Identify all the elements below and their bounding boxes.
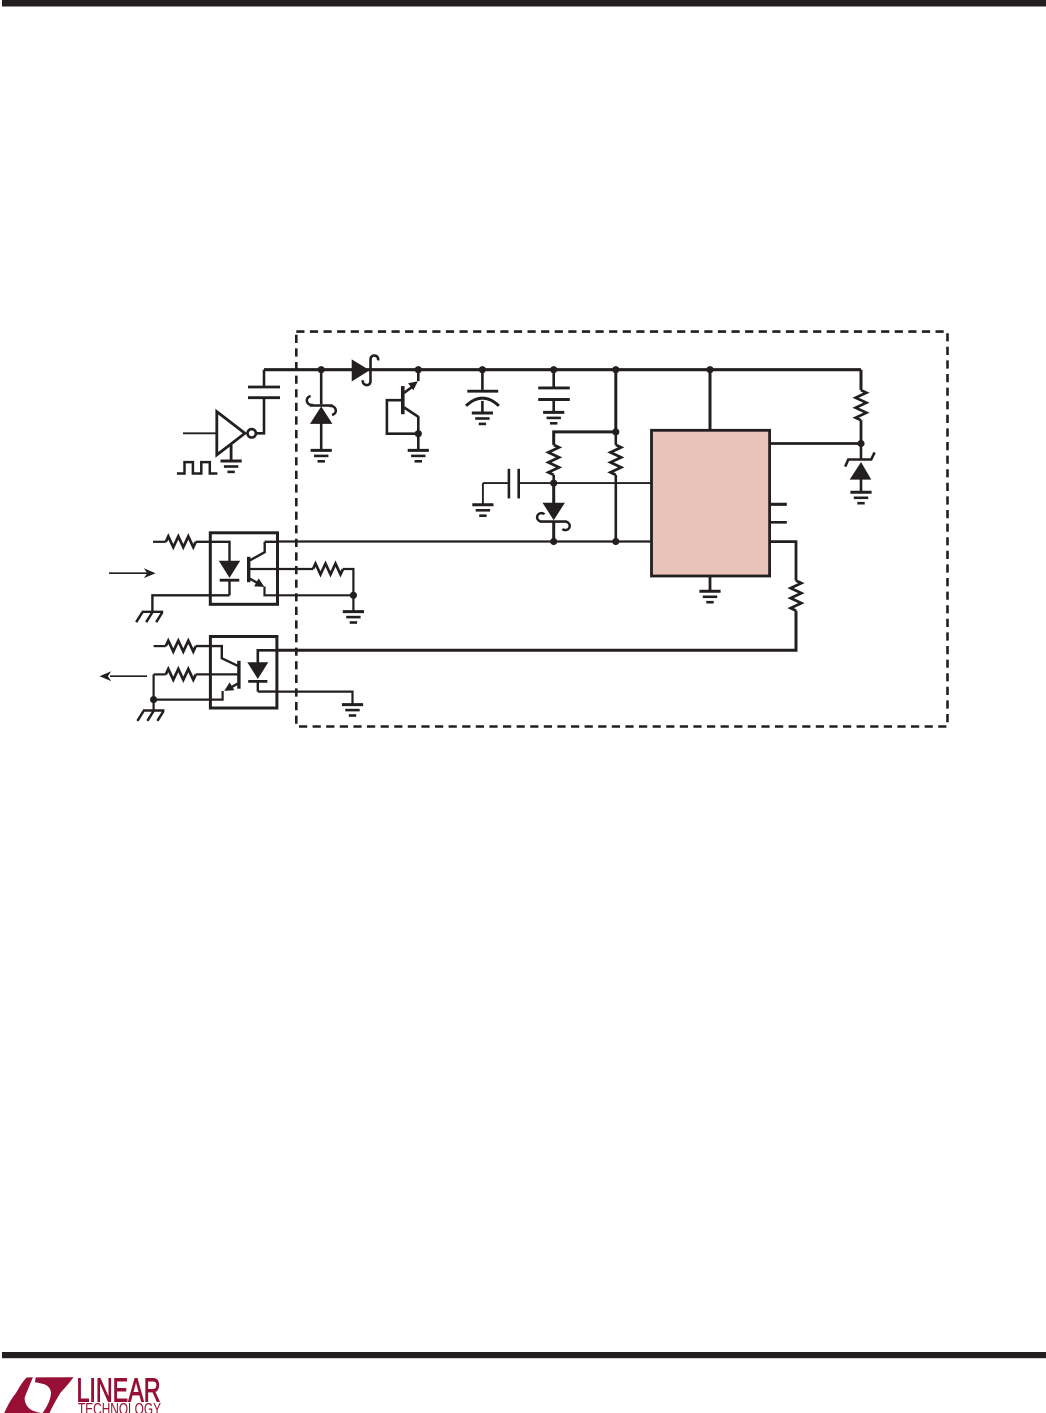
square wave input symbol bbox=[177, 462, 218, 473]
IC U2 (pink block) bbox=[652, 430, 770, 576]
wire: divider top cross wire bbox=[554, 432, 616, 445]
wire: R1 to LED anode bbox=[196, 542, 230, 562]
wire: R7 to U4 collector bbox=[196, 646, 238, 666]
ground at U4 LED cathode bbox=[342, 705, 363, 716]
phototransistor in U4 bbox=[154, 661, 239, 700]
ground under inverter bbox=[230, 444, 233, 461]
svg-text:TECHNOLOGY: TECHNOLOGY bbox=[78, 1400, 161, 1413]
resistor R2 (U3 base-emitter) bbox=[313, 564, 343, 575]
phototransistor in U3 bbox=[249, 542, 354, 596]
wire: U3 LED cathode out to chassis ground bbox=[152, 595, 229, 611]
wire: U4 LED cathode to ground bbox=[277, 692, 353, 704]
node: R4 on bottom net bbox=[612, 538, 619, 545]
node: R3/C4/D3 junction bbox=[550, 480, 557, 487]
node: divider top junction bbox=[612, 428, 619, 435]
capacitor C3 bbox=[538, 370, 570, 412]
node: bus junction at C3 bbox=[550, 366, 557, 373]
ground under C3 bbox=[543, 412, 564, 423]
resistor R5 (top right) bbox=[860, 370, 863, 391]
header bar bbox=[2, 0, 1046, 7]
wire: feedback node to IC left pin bbox=[554, 482, 652, 484]
wire: inverter output up to coupling capacitor bbox=[256, 398, 264, 433]
node: U4 emitter/ground junction bbox=[150, 696, 157, 703]
resistor R4 bbox=[614, 432, 617, 445]
wire: R8 to U4 base bbox=[196, 673, 239, 675]
schottky diode D2 (series on bus) bbox=[352, 355, 378, 385]
resistor R8 (U4 base) bbox=[154, 673, 166, 675]
ground at U3 emitter bbox=[352, 595, 354, 610]
wire: opto U3 collector to IC left pin (bottom net) bbox=[277, 540, 652, 542]
wire: R8 left lead down to ground bbox=[153, 674, 155, 710]
node: R5/D4/IC pin junction bbox=[857, 440, 864, 447]
node: D3 anode on bottom net bbox=[550, 538, 557, 545]
chassis ground (U3 input side) bbox=[136, 612, 163, 622]
wire: R6 down and left to opto U4 bbox=[278, 611, 797, 651]
zener D3 bbox=[537, 483, 570, 541]
ground under Q1 bbox=[417, 434, 420, 450]
arrow: input signal into U3 bbox=[109, 572, 148, 574]
zener D4 bbox=[845, 444, 874, 492]
ground under C4 bbox=[472, 505, 493, 516]
node: bus junction at divider branch bbox=[612, 366, 619, 373]
LED in U3 bbox=[220, 561, 240, 595]
wire: main top bus bbox=[264, 368, 861, 371]
chassis ground (U4 output side) bbox=[137, 711, 164, 721]
wire: IC bottom pin bbox=[709, 576, 712, 591]
node: bus junction at IC top pin bbox=[706, 366, 713, 373]
resistor R3 bbox=[548, 445, 559, 475]
dashed isolation boundary box bbox=[296, 332, 947, 727]
inverter U1 bbox=[217, 412, 256, 455]
wire: IC right pin 1 bbox=[770, 442, 861, 445]
transistor Q1 (diode-connected PNP) bbox=[387, 370, 418, 434]
capacitor C5 (stub plates on IC right) bbox=[770, 503, 787, 506]
wire: bus branch down to divider bbox=[614, 370, 617, 432]
wire: U3 base pin out bbox=[249, 568, 313, 570]
wire: R4 bottom lead bbox=[614, 475, 617, 542]
node: bus junction at C2 bbox=[479, 366, 486, 373]
resistor R1 (U3 LED input) bbox=[153, 541, 166, 543]
node: bus junction at Q1 bbox=[415, 366, 422, 373]
ground under D1 bbox=[311, 450, 332, 461]
arrow: output signal from U4 bbox=[110, 675, 147, 677]
ground under C2 bbox=[472, 413, 493, 424]
capacitor C4 (vertical plates) bbox=[483, 469, 554, 504]
wire: IC right pin 3 to R6 bbox=[770, 542, 796, 581]
node: U3 emitter/ground junction bbox=[350, 592, 357, 599]
optocoupler U4 box bbox=[210, 637, 277, 709]
capacitor C2 (polarized) bbox=[466, 370, 499, 413]
wire: U3 collector pin out bbox=[265, 541, 278, 543]
capacitor C1 (coupling, horizontal plates) bbox=[248, 387, 280, 398]
resistor R6 (lower right) bbox=[791, 581, 802, 611]
LED in U4 bbox=[248, 650, 277, 691]
wire: R3 bottom lead bbox=[552, 475, 555, 483]
optocoupler U3 box bbox=[210, 533, 277, 605]
resistor R7 (U4 collector) bbox=[154, 645, 166, 647]
wire: C1 top plate up to main bus bbox=[263, 370, 266, 387]
wire: inverter input bbox=[183, 432, 217, 434]
node: bus junction at TVS D1 bbox=[318, 366, 325, 373]
wire: R2 down to emitter node bbox=[343, 569, 353, 595]
TVS diode D1 bbox=[307, 370, 336, 450]
ground under IC bbox=[699, 591, 720, 602]
ground under D4 bbox=[850, 492, 871, 503]
node: Q1 base-collector tie bbox=[415, 430, 422, 437]
wire: IC top pin to bus bbox=[709, 370, 712, 431]
Linear Technology logo bbox=[4, 1372, 161, 1413]
footer bar bbox=[2, 1352, 1046, 1358]
